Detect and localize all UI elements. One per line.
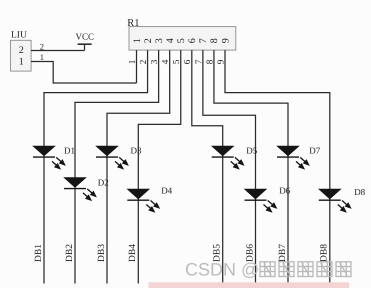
svg-text:DB8: DB8 xyxy=(320,244,330,262)
resistor network R1 body xyxy=(127,18,236,50)
svg-text:1: 1 xyxy=(40,52,44,62)
wire R1 pin 1 xyxy=(136,50,138,83)
svg-text:9: 9 xyxy=(220,38,231,43)
LED D2 xyxy=(63,177,95,200)
svg-text:D2: D2 xyxy=(98,178,109,188)
svg-text:DB5: DB5 xyxy=(213,244,223,262)
watermark xyxy=(149,260,352,288)
svg-text:DB3: DB3 xyxy=(97,244,107,262)
svg-text:1: 1 xyxy=(132,38,143,43)
svg-text:LIU: LIU xyxy=(11,30,27,40)
svg-text:6: 6 xyxy=(182,59,192,64)
LED D7 xyxy=(276,146,308,169)
svg-text:DB2: DB2 xyxy=(65,244,75,262)
svg-text:7: 7 xyxy=(198,38,209,43)
wire R1 pin 2 to net DB1 xyxy=(44,50,148,283)
svg-text:2: 2 xyxy=(40,41,44,51)
LED D3 xyxy=(95,146,127,169)
svg-text:D6: D6 xyxy=(279,186,290,196)
svg-text:2: 2 xyxy=(19,45,24,56)
svg-text:DB6: DB6 xyxy=(245,244,255,262)
svg-text:2: 2 xyxy=(138,59,148,64)
svg-text:D4: D4 xyxy=(161,186,172,196)
svg-text:3: 3 xyxy=(149,59,159,64)
connector LIU body xyxy=(11,30,32,71)
svg-text:D8: D8 xyxy=(354,187,365,197)
svg-text:2: 2 xyxy=(143,38,154,43)
LED D8 xyxy=(318,189,350,212)
wire R1 pin 9 to net DB8 xyxy=(225,50,330,283)
svg-text:4: 4 xyxy=(165,38,176,43)
svg-text:D3: D3 xyxy=(131,145,142,155)
svg-text:R1: R1 xyxy=(127,18,139,29)
svg-text:1: 1 xyxy=(19,56,24,67)
svg-text:6: 6 xyxy=(187,38,198,43)
svg-text:8: 8 xyxy=(209,38,220,43)
wire R1 pin 7 to net DB6 xyxy=(203,50,256,283)
svg-text:VCC: VCC xyxy=(76,31,95,41)
wire R1 pin 5 to net DB4 xyxy=(138,50,180,283)
LED D4 xyxy=(127,189,159,212)
svg-text:5: 5 xyxy=(171,59,181,64)
wire R1 pin 6 to net DB5 xyxy=(192,50,223,283)
svg-text:4: 4 xyxy=(160,59,170,64)
wire R1 pin 8 to net DB7 xyxy=(214,50,288,283)
wire R1 pin 4 to net DB3 xyxy=(107,50,170,283)
LED D1 xyxy=(32,146,64,169)
power VCC xyxy=(76,31,95,50)
svg-text:8: 8 xyxy=(204,59,214,64)
wire LIU pin 1 to R1 pin 1 xyxy=(31,62,136,84)
svg-text:DB7: DB7 xyxy=(278,244,288,262)
LED D6 xyxy=(244,189,276,212)
LED D5 xyxy=(211,146,243,169)
svg-text:5: 5 xyxy=(176,38,187,43)
svg-text:3: 3 xyxy=(154,38,165,43)
wire LIU pin 2 to VCC xyxy=(31,50,84,52)
svg-text:D1: D1 xyxy=(64,145,75,155)
svg-text:1: 1 xyxy=(127,59,137,64)
wire R1 pin 3 to net DB2 xyxy=(75,50,159,283)
svg-text:DB4: DB4 xyxy=(128,244,138,262)
svg-text:DB1: DB1 xyxy=(34,244,44,262)
svg-text:9: 9 xyxy=(215,59,225,64)
svg-text:D5: D5 xyxy=(246,145,257,155)
svg-text:7: 7 xyxy=(193,59,203,64)
svg-text:D7: D7 xyxy=(309,145,320,155)
